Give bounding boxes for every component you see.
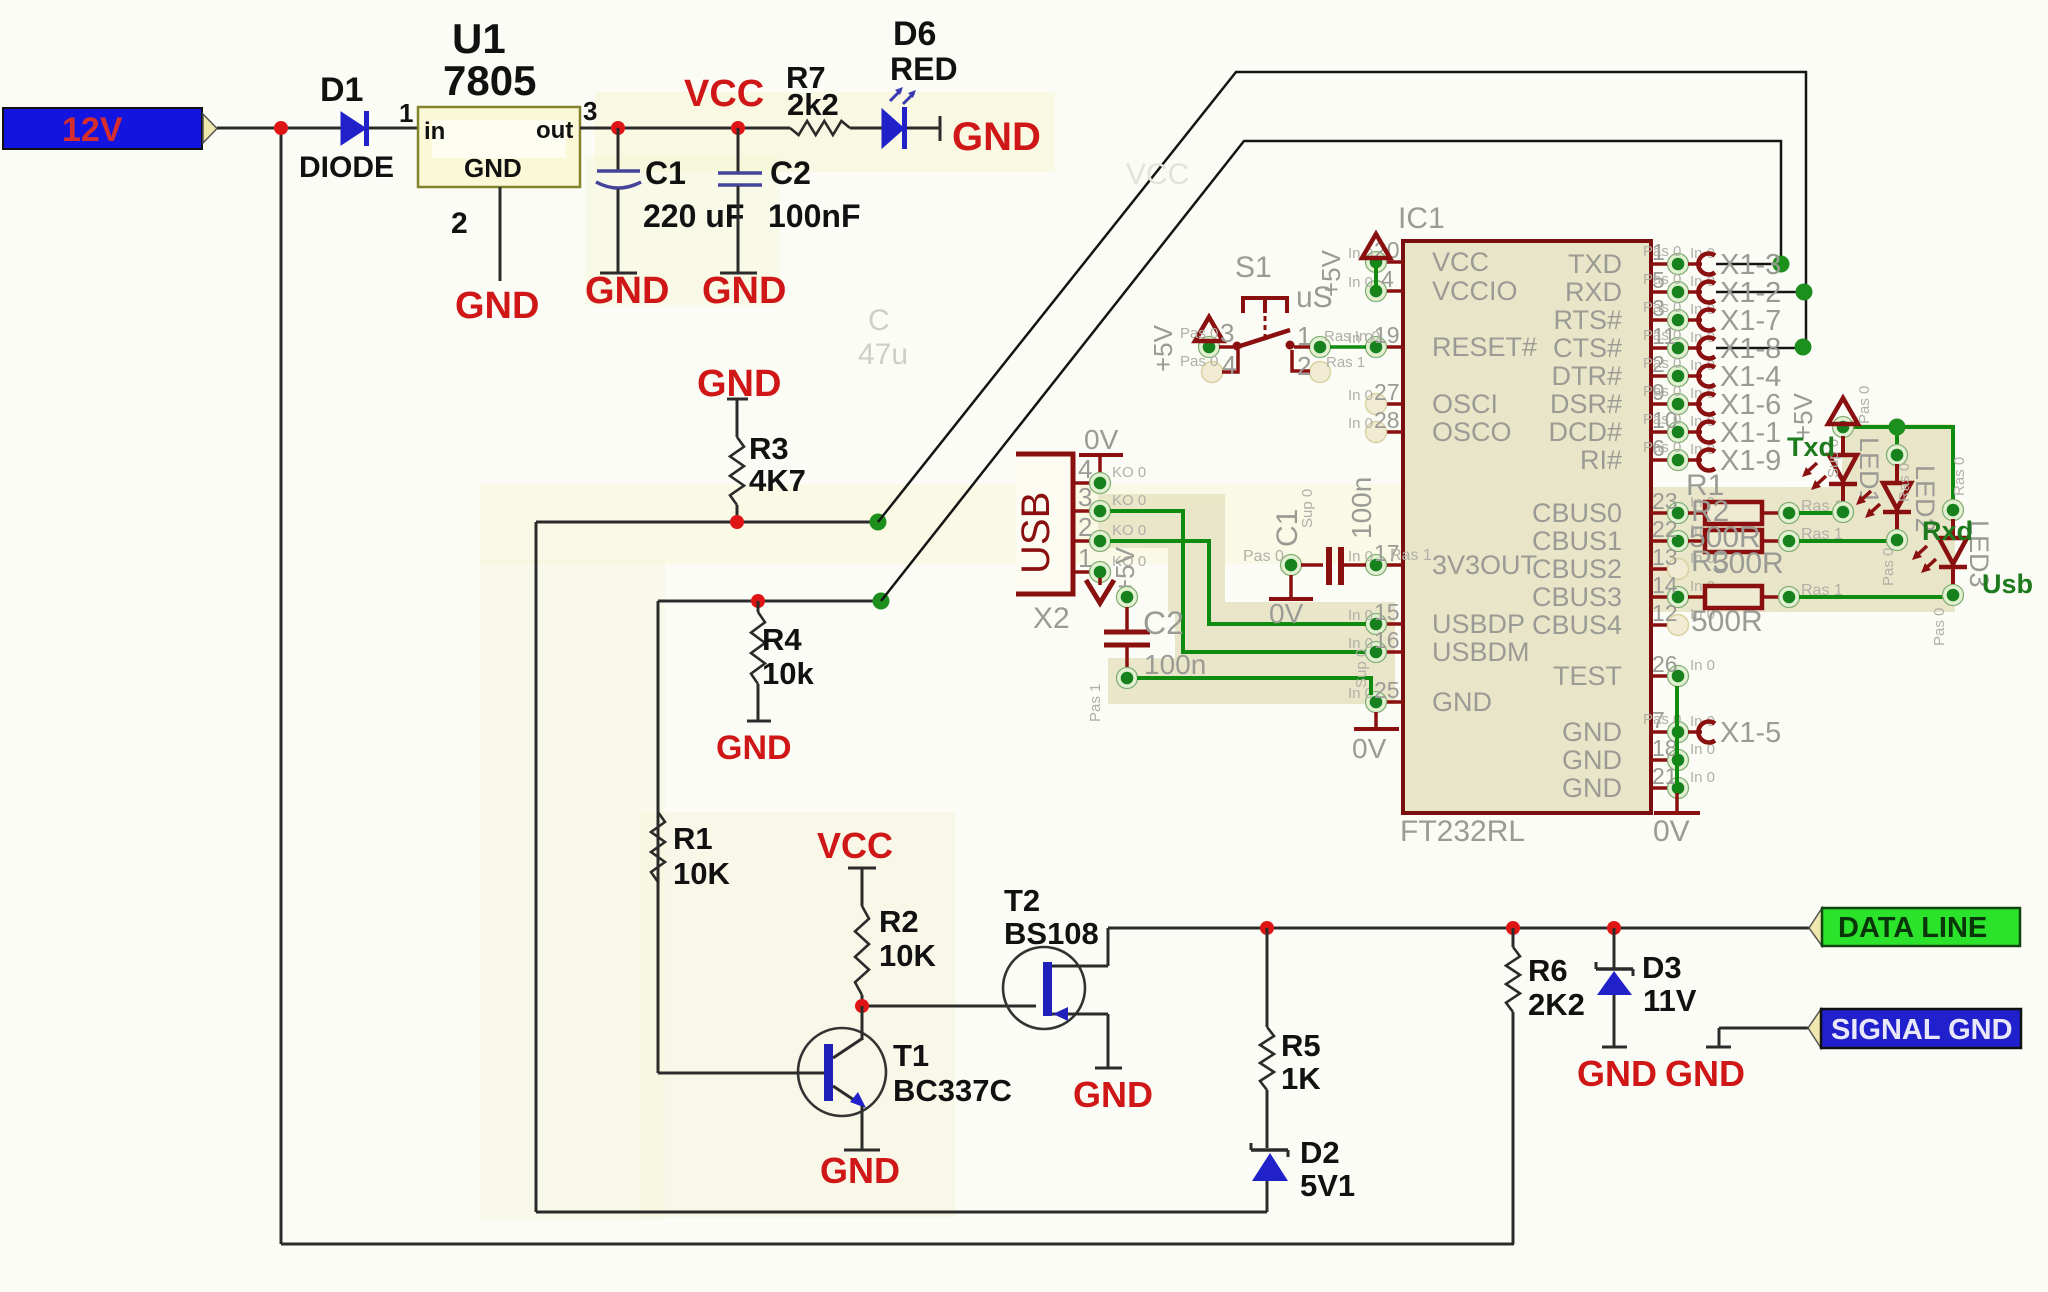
svg-text:RTS#: RTS# — [1553, 305, 1622, 335]
pin 3 RTS# — [1651, 318, 1678, 322]
junction R2/T1/T2 gate — [862, 1005, 1036, 1008]
svg-text:13: 13 — [1652, 544, 1678, 570]
svg-text:+5V: +5V — [1316, 249, 1346, 297]
svg-text:R3: R3 — [749, 431, 789, 466]
connector X2 pin 3 — [1073, 509, 1090, 513]
svg-text:2K2: 2K2 — [1528, 987, 1585, 1022]
svg-text:Txd: Txd — [1787, 432, 1835, 462]
capacitor C1 220uF — [585, 128, 744, 312]
connector X2 pin 1 — [1073, 570, 1090, 574]
pin 23 CBUS0 — [1651, 511, 1678, 515]
svg-text:RXD: RXD — [1565, 277, 1622, 307]
svg-text:4: 4 — [1078, 454, 1092, 484]
svg-text:TXD: TXD — [1568, 249, 1622, 279]
junction at C1 — [611, 121, 625, 135]
connector X2 pin 4 — [1073, 481, 1090, 485]
pin 21 GND — [1651, 786, 1678, 790]
resistor R6 2K2 — [1506, 928, 1585, 1244]
svg-text:CBUS4: CBUS4 — [1532, 610, 1622, 640]
svg-text:CBUS3: CBUS3 — [1532, 582, 1622, 612]
connector pin X1-9 — [1688, 458, 1702, 462]
pin 17 3V3OUT — [1376, 563, 1403, 567]
svg-text:FT232RL: FT232RL — [1400, 815, 1525, 848]
wire vertical to R1 — [657, 601, 660, 1073]
svg-text:Usb: Usb — [1982, 569, 2033, 599]
svg-text:3: 3 — [1078, 482, 1092, 512]
wire TEST to GND rail — [1675, 686, 1679, 793]
resistor R3 4K7 — [730, 400, 806, 522]
wire USB D- (pin2) to USBDP — [1110, 541, 1366, 624]
svg-text:GND: GND — [716, 729, 792, 767]
node SIGNAL GND — [1808, 1009, 2021, 1048]
wire bottom rail B — [281, 1243, 1514, 1246]
eagle net highlight regions — [1098, 424, 1955, 704]
svg-text:DATA LINE: DATA LINE — [1838, 912, 1987, 944]
svg-text:1: 1 — [1078, 543, 1092, 573]
svg-text:in: in — [424, 118, 445, 145]
svg-text:VCC: VCC — [817, 825, 893, 866]
svg-text:USBDM: USBDM — [1432, 637, 1530, 667]
svg-text:0V: 0V — [1653, 815, 1690, 848]
diode LED1 — [1802, 417, 1884, 523]
svg-text:R6: R6 — [1528, 953, 1568, 988]
svg-text:Pas 0: Pas 0 — [1243, 548, 1284, 565]
svg-text:27: 27 — [1374, 379, 1400, 405]
svg-text:14: 14 — [1652, 572, 1678, 598]
svg-text:OSCO: OSCO — [1432, 417, 1512, 447]
+5V supply at IC pin 20 — [1362, 234, 1390, 258]
svg-text:GND: GND — [702, 270, 786, 312]
wire USB D+ (pin3) to USBDM — [1110, 511, 1366, 652]
wire left mid vertical — [535, 522, 538, 1212]
svg-text:15: 15 — [1374, 599, 1400, 625]
pin 22 CBUS1 — [1651, 539, 1678, 543]
svg-text:X2: X2 — [1033, 602, 1070, 635]
transistor T2 BS108 — [1003, 883, 1153, 1115]
svg-text:R2: R2 — [879, 904, 919, 939]
pin 1 TXD — [1651, 262, 1678, 266]
wire CBUS3 to LED3 — [1799, 595, 1944, 599]
svg-text:out: out — [536, 117, 573, 144]
svg-text:X1-5: X1-5 — [1720, 717, 1781, 749]
svg-text:VCCIO: VCCIO — [1432, 276, 1518, 306]
svg-text:CBUS0: CBUS0 — [1532, 498, 1622, 528]
svg-text:10K: 10K — [673, 856, 730, 891]
connector pin X1-2 — [1688, 290, 1702, 294]
pin 6 RI# — [1651, 458, 1678, 462]
connector pin X1-1 — [1688, 430, 1702, 434]
ground for SIGNAL GND — [1665, 1028, 1821, 1094]
svg-text:1K: 1K — [1281, 1061, 1321, 1096]
svg-text:10k: 10k — [762, 656, 814, 691]
svg-text:21: 21 — [1652, 763, 1678, 789]
svg-text:100n: 100n — [1144, 649, 1206, 680]
svg-text:SIGNAL GND: SIGNAL GND — [1831, 1014, 2013, 1046]
svg-text:VCC: VCC — [684, 73, 764, 115]
svg-text:GND: GND — [1562, 717, 1622, 747]
wire left vertical rail from 12V junction — [280, 128, 283, 1244]
zener D3 11V — [1577, 928, 1697, 1094]
svg-text:47u: 47u — [858, 338, 908, 371]
svg-text:In 0: In 0 — [1690, 657, 1715, 674]
connector pin X1-5 — [1688, 730, 1702, 734]
svg-text:IC1: IC1 — [1398, 202, 1445, 235]
transistor T1 BC337C — [658, 1006, 1012, 1191]
svg-text:RI#: RI# — [1580, 445, 1622, 475]
pin 28 OSCO — [1376, 430, 1403, 434]
svg-text:GND: GND — [1562, 773, 1622, 803]
resistor R2 10K — [855, 868, 936, 1006]
svg-text:In 0: In 0 — [1348, 387, 1373, 404]
svg-text:26: 26 — [1652, 651, 1678, 677]
svg-text:Pas 0: Pas 0 — [1643, 411, 1681, 428]
svg-text:+5V: +5V — [1148, 324, 1178, 372]
svg-text:Pas 0: Pas 0 — [1643, 439, 1681, 456]
svg-text:Pas 0: Pas 0 — [1643, 355, 1681, 372]
pin 27 OSCI — [1376, 402, 1403, 406]
wire data line rail — [1108, 927, 1822, 930]
svg-text:Ras 1: Ras 1 — [1326, 354, 1365, 371]
svg-text:USBDP: USBDP — [1432, 609, 1525, 639]
svg-text:Ras In 0: Ras In 0 — [1324, 328, 1380, 345]
pin 13 CBUS2 — [1651, 567, 1678, 571]
svg-text:GND: GND — [585, 270, 669, 312]
connector X1 pins — [1643, 243, 1781, 281]
node 12V input — [3, 108, 217, 149]
svg-text:Ras 0: Ras 0 — [1951, 457, 1968, 496]
svg-text:VCC: VCC — [1126, 158, 1189, 191]
svg-text:Pas 0: Pas 0 — [1643, 383, 1681, 400]
svg-text:GND: GND — [1432, 687, 1492, 717]
pin 26 TEST — [1651, 674, 1678, 678]
svg-text:Rxd: Rxd — [1922, 516, 1973, 546]
svg-text:Sup 0: Sup 0 — [1353, 649, 1370, 688]
resistor R1 500R (CBUS0) — [1688, 498, 1843, 524]
svg-text:1: 1 — [1297, 321, 1311, 351]
svg-text:220 uF: 220 uF — [643, 198, 744, 234]
IC1 right pins — [1568, 239, 1715, 279]
svg-text:R1: R1 — [673, 821, 713, 856]
svg-text:GND: GND — [1577, 1053, 1657, 1094]
resistor R7 2k2 — [786, 60, 850, 135]
pin 7 GND — [1651, 730, 1678, 734]
+5V supply above LED1 — [1828, 398, 1858, 424]
svg-text:DCD#: DCD# — [1548, 417, 1622, 447]
pin 25 GND — [1376, 700, 1403, 704]
wire R4 row — [658, 600, 881, 603]
svg-text:VCC: VCC — [1432, 247, 1489, 277]
svg-text:T1: T1 — [893, 1038, 929, 1073]
capacitor C2 100nF — [702, 128, 860, 312]
svg-text:In 0: In 0 — [1348, 415, 1373, 432]
pin 16 USBDM — [1376, 650, 1403, 654]
svg-text:12V: 12V — [62, 111, 123, 149]
junction 12V node — [274, 121, 288, 135]
connector pin X1-3 — [1688, 262, 1702, 266]
svg-text:2k2: 2k2 — [787, 87, 839, 122]
svg-text:22: 22 — [1652, 516, 1678, 542]
svg-text:100n: 100n — [1346, 477, 1377, 539]
svg-text:0V: 0V — [1352, 733, 1387, 764]
wire TXD net (X1-3 to R4 node) — [881, 141, 1781, 601]
svg-text:In 0: In 0 — [1348, 274, 1373, 291]
svg-text:D3: D3 — [1642, 950, 1682, 985]
svg-text:Sup 0: Sup 0 — [1299, 489, 1316, 528]
svg-text:CTS#: CTS# — [1553, 333, 1622, 363]
0V at IC pin 25 — [1374, 712, 1378, 728]
svg-text:R5: R5 — [1281, 1028, 1321, 1063]
pin 10 DCD# — [1651, 430, 1678, 434]
svg-text:500R: 500R — [1712, 547, 1784, 580]
svg-text:5V1: 5V1 — [1300, 1168, 1355, 1203]
svg-text:GND: GND — [1665, 1053, 1745, 1094]
svg-text:500R: 500R — [1691, 605, 1763, 638]
svg-text:Pas 0: Pas 0 — [1856, 386, 1873, 424]
svg-text:Pas 0: Pas 0 — [1643, 271, 1681, 288]
pin 5 RXD — [1651, 290, 1678, 294]
svg-text:0V: 0V — [1084, 424, 1119, 455]
svg-text:OSCI: OSCI — [1432, 389, 1498, 419]
svg-text:D6: D6 — [893, 15, 936, 53]
0V under right GND pins — [1675, 793, 1679, 812]
svg-text:USB: USB — [1014, 492, 1058, 574]
svg-text:Pas 0: Pas 0 — [1880, 548, 1897, 586]
svg-text:Pas 0: Pas 0 — [1643, 327, 1681, 344]
svg-text:D2: D2 — [1300, 1135, 1340, 1170]
svg-text:28: 28 — [1374, 407, 1400, 433]
connector X2 pin 2 — [1073, 539, 1090, 543]
pin 12 CBUS4 — [1651, 623, 1678, 627]
svg-text:0V: 0V — [1269, 598, 1304, 629]
+5V down arrow under X2 pin1 — [1098, 578, 1102, 585]
svg-text:4: 4 — [1222, 350, 1236, 380]
svg-text:18: 18 — [1652, 735, 1678, 761]
connector pin X1-7 — [1688, 318, 1702, 322]
pin 19 RESET# — [1376, 345, 1403, 349]
svg-text:TEST: TEST — [1553, 661, 1622, 691]
wire bottom rail A — [536, 1211, 1267, 1214]
wire CBUS0 to LED1 — [1799, 511, 1834, 515]
svg-text:R4: R4 — [762, 622, 802, 657]
wire C2 to GND pin 25 — [1137, 678, 1371, 695]
resistor R1 10K — [651, 812, 730, 891]
svg-text:Pas 0: Pas 0 — [1180, 353, 1218, 370]
svg-text:25: 25 — [1374, 677, 1400, 703]
LED D6 RED — [850, 15, 958, 149]
svg-text:GND: GND — [820, 1150, 900, 1191]
LED LED2 — [1887, 445, 1908, 466]
pin 4 VCCIO — [1376, 289, 1403, 293]
wire R3 row — [536, 521, 878, 524]
svg-text:RED: RED — [890, 51, 958, 87]
wire RXD/CTS net (X1-2,X1-8 to R3 node) — [878, 72, 1806, 522]
svg-text:3: 3 — [583, 96, 597, 126]
svg-text:Pas 0: Pas 0 — [1180, 325, 1218, 342]
capacitor C1 100n (eagle) — [1243, 477, 1432, 629]
junction at C2/VCC — [731, 121, 745, 135]
svg-text:100nF: 100nF — [768, 198, 860, 234]
svg-text:Ras 1: Ras 1 — [1390, 547, 1432, 564]
svg-text:7805: 7805 — [443, 57, 536, 104]
pin 20 VCC — [1376, 260, 1403, 264]
svg-text:3: 3 — [1220, 318, 1234, 348]
wire CBUS1 to LED2 — [1799, 539, 1888, 543]
svg-text:GND: GND — [1562, 745, 1622, 775]
svg-text:KO 0: KO 0 — [1112, 492, 1146, 509]
connector X2 USB — [1014, 424, 1123, 635]
wire U1 out to R7 — [580, 127, 790, 130]
LED LED1 — [1833, 417, 1854, 438]
svg-text:2: 2 — [1297, 351, 1311, 381]
svg-text:GND: GND — [455, 285, 539, 327]
pin 14 CBUS3 — [1651, 595, 1678, 599]
svg-text:In 0: In 0 — [1690, 769, 1715, 786]
svg-text:C2: C2 — [1143, 605, 1184, 641]
svg-text:C1: C1 — [645, 155, 686, 191]
svg-text:GND: GND — [464, 153, 522, 183]
svg-text:Ras 0: Ras 0 — [1896, 463, 1913, 502]
wire +5V LED top rail — [1853, 427, 1953, 501]
svg-text:2: 2 — [1078, 512, 1092, 542]
svg-text:S1: S1 — [1235, 251, 1272, 284]
pin 11 CTS# — [1651, 346, 1678, 350]
svg-text:Pas 0: Pas 0 — [1643, 299, 1681, 316]
background tint washes — [480, 92, 1520, 1220]
svg-text:GND: GND — [1073, 1074, 1153, 1115]
resistor R4 10k — [716, 601, 814, 767]
svg-text:1: 1 — [399, 98, 413, 128]
svg-text:X1-9: X1-9 — [1720, 445, 1781, 477]
svg-text:BS108: BS108 — [1004, 916, 1099, 951]
LED LED3 — [1943, 500, 1964, 521]
svg-text:11V: 11V — [1643, 983, 1697, 1018]
wire 12V to D1 with junction — [217, 127, 341, 130]
svg-text:KO 0: KO 0 — [1112, 522, 1146, 539]
op-amp IC1 FT232RL body — [1403, 241, 1651, 813]
svg-text:GND: GND — [952, 115, 1041, 159]
regulator U1 7805 — [418, 15, 597, 240]
diode D1 — [299, 71, 418, 184]
node DATA LINE — [1809, 908, 2020, 946]
resistor R5 1K — [1260, 928, 1321, 1148]
svg-text:In 0: In 0 — [1348, 548, 1373, 565]
IC1 left pins — [1348, 237, 1489, 277]
connector pin X1-8 — [1688, 346, 1702, 350]
wire U1 pin2 to GND — [499, 187, 502, 281]
zener D2 5V1 — [1251, 1135, 1355, 1212]
switch S1 — [1148, 251, 1380, 383]
diode LED3 — [1912, 500, 1994, 606]
svg-text:KO 0: KO 0 — [1112, 464, 1146, 481]
svg-text:BC337C: BC337C — [893, 1073, 1012, 1108]
capacitor C2 100n (eagle) — [1087, 587, 1206, 723]
svg-text:Pas 0: Pas 0 — [1931, 608, 1948, 646]
svg-text:DTR#: DTR# — [1551, 361, 1622, 391]
wire VCC-VCCIO — [1374, 262, 1378, 291]
svg-text:Pas 1: Pas 1 — [1087, 684, 1104, 722]
pin 9 DSR# — [1651, 402, 1678, 406]
connector pin X1-4 — [1688, 374, 1702, 378]
svg-text:C: C — [868, 304, 890, 337]
svg-text:RESET#: RESET# — [1432, 332, 1537, 362]
svg-text:DSR#: DSR# — [1550, 389, 1622, 419]
svg-text:10K: 10K — [879, 938, 936, 973]
svg-text:DIODE: DIODE — [299, 151, 394, 184]
pin 15 USBDP — [1376, 622, 1403, 626]
svg-text:Pas 0: Pas 0 — [1643, 243, 1681, 260]
svg-text:16: 16 — [1374, 627, 1400, 653]
pin 2 DTR# — [1651, 374, 1678, 378]
diode LED2 — [1856, 445, 1940, 551]
svg-text:3V3OUT: 3V3OUT — [1432, 550, 1537, 580]
svg-text:D1: D1 — [320, 71, 363, 109]
svg-text:CBUS2: CBUS2 — [1532, 554, 1622, 584]
svg-text:23: 23 — [1652, 488, 1678, 514]
svg-text:2: 2 — [451, 207, 468, 240]
svg-text:4K7: 4K7 — [749, 463, 806, 498]
svg-text:C2: C2 — [770, 155, 811, 191]
pin 18 GND — [1651, 758, 1678, 762]
connector pin X1-6 — [1688, 402, 1702, 406]
svg-text:12: 12 — [1652, 600, 1678, 626]
svg-text:T2: T2 — [1004, 883, 1040, 918]
svg-text:4: 4 — [1381, 266, 1394, 292]
svg-text:U1: U1 — [452, 15, 506, 62]
svg-text:In 0: In 0 — [1348, 607, 1373, 624]
svg-text:CBUS1: CBUS1 — [1532, 526, 1622, 556]
